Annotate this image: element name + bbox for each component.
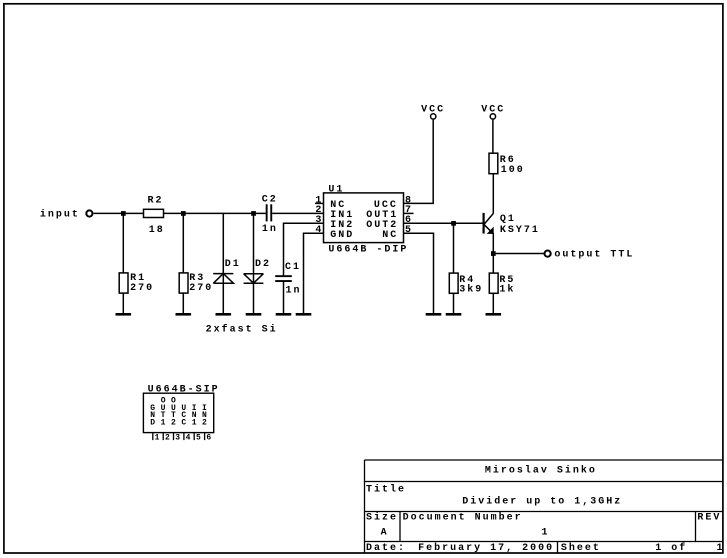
svg-text:Date:: Date: xyxy=(366,543,406,554)
svg-text:U664B-SIP: U664B-SIP xyxy=(148,385,220,396)
SIP pin ticks xyxy=(153,433,205,441)
wire R2 to C2 xyxy=(164,212,266,214)
svg-text:U1: U1 xyxy=(328,185,344,196)
svg-text:1: 1 xyxy=(542,528,550,539)
svg-text:D12C12: D12C12 xyxy=(150,418,212,427)
diode D1 symbol xyxy=(213,273,233,275)
diode D2 symbol xyxy=(244,273,264,275)
junction at D2 xyxy=(251,211,256,216)
svg-text:GND: GND xyxy=(330,230,354,241)
svg-text:2xfast Si: 2xfast Si xyxy=(206,323,278,335)
wire R6 to Q1 collector xyxy=(492,174,494,214)
svg-text:3k9: 3k9 xyxy=(459,284,483,296)
svg-text:18: 18 xyxy=(149,225,165,236)
transistor Q1 emitter stroke xyxy=(484,225,494,234)
wire C2 to U1 pin2 xyxy=(272,212,323,214)
svg-text:output TTL: output TTL xyxy=(554,250,634,261)
svg-text:A: A xyxy=(381,528,389,539)
svg-text:VCC: VCC xyxy=(421,105,445,116)
wire R1 drop xyxy=(122,213,124,273)
wire D2 drop xyxy=(253,213,255,313)
wire U1 pin4 to ground xyxy=(304,233,324,313)
svg-text:Title: Title xyxy=(366,483,406,495)
transistor Q1 base bar xyxy=(483,213,485,234)
junction on input node at R1 xyxy=(121,211,126,216)
resistor R1 body xyxy=(119,273,128,293)
U664B-SIP pinout diagram xyxy=(143,385,219,443)
svg-text:Divider up to 1,3GHz: Divider up to 1,3GHz xyxy=(462,495,622,507)
svg-text:input: input xyxy=(40,208,80,220)
svg-text:123456: 123456 xyxy=(155,434,217,443)
svg-text:Sheet: Sheet xyxy=(561,542,601,554)
svg-text:VCC: VCC xyxy=(481,105,505,116)
svg-text:KSY71: KSY71 xyxy=(500,225,540,236)
wire output xyxy=(493,253,544,255)
capacitor C2 plates xyxy=(266,204,268,221)
wire Q1 emitter down to R5 and ground xyxy=(492,234,494,274)
node input terminal circle xyxy=(86,210,92,216)
resistor R4 body xyxy=(449,273,458,293)
svg-text:5: 5 xyxy=(405,225,413,236)
transistor Q1 emitter arrowhead xyxy=(487,227,494,234)
svg-text:Miroslav Sinko: Miroslav Sinko xyxy=(485,464,597,476)
wire U1 pin8 to VCC xyxy=(404,120,434,204)
svg-text:1: 1 xyxy=(717,543,725,554)
svg-text:1n: 1n xyxy=(286,285,302,296)
svg-text:C2: C2 xyxy=(262,194,278,205)
capacitor C1 plates xyxy=(275,275,292,277)
svg-text:U664B -DIP: U664B -DIP xyxy=(328,245,408,256)
svg-text:D2: D2 xyxy=(255,259,271,270)
ground U1 pin4 xyxy=(296,313,312,316)
transistor Q1 collector stroke xyxy=(484,213,494,224)
resistor R5 body xyxy=(489,273,498,293)
resistor R6 body xyxy=(489,153,498,174)
svg-text:1 of: 1 of xyxy=(655,542,687,554)
svg-text:100: 100 xyxy=(501,165,525,176)
wire U1 pin6 to Q1 base xyxy=(404,222,484,224)
junction at R3 xyxy=(181,211,186,216)
svg-text:D1: D1 xyxy=(225,259,241,270)
svg-text:R2: R2 xyxy=(148,195,164,206)
svg-text:Document Number: Document Number xyxy=(403,511,523,523)
svg-text:Size: Size xyxy=(366,511,398,523)
wire VCC to R6 xyxy=(492,120,494,154)
junction at R4 on base net xyxy=(451,221,456,226)
pin 7 stub U1 xyxy=(404,212,414,214)
ground D2 xyxy=(246,313,262,316)
pin 1 stub U1 xyxy=(315,202,324,204)
svg-text:Q1: Q1 xyxy=(500,214,516,225)
svg-text:4: 4 xyxy=(315,225,323,236)
svg-text:February 17, 2000: February 17, 2000 xyxy=(418,542,554,554)
power VCC terminal left xyxy=(431,114,436,119)
wire input to R2 xyxy=(94,212,144,214)
svg-text:270: 270 xyxy=(189,283,213,294)
ground C1 xyxy=(276,313,292,316)
wire U1 pin5 to ground xyxy=(404,233,434,313)
ground U1 pin5 xyxy=(426,313,442,316)
svg-text:NC: NC xyxy=(382,230,398,241)
op-amp U1 box U664B-DIP xyxy=(324,193,404,243)
SIP package box xyxy=(143,393,213,432)
svg-text:REV: REV xyxy=(697,512,721,523)
wire C1 to ground xyxy=(283,282,285,314)
title block xyxy=(365,460,723,553)
svg-text:C1: C1 xyxy=(285,262,301,273)
junction at output node xyxy=(491,251,496,256)
ground R5 xyxy=(486,313,502,316)
power VCC terminal right xyxy=(490,114,495,119)
svg-text:270: 270 xyxy=(130,283,154,294)
node output terminal circle xyxy=(545,251,551,257)
wire U1 pin3 to C1 xyxy=(284,223,324,275)
ground D1 xyxy=(216,313,232,316)
ground R1 xyxy=(116,313,132,316)
wire R3 drop xyxy=(182,213,184,273)
svg-text:1k: 1k xyxy=(499,284,515,296)
resistor R2 body xyxy=(144,209,164,217)
wire R4 drop xyxy=(453,223,455,273)
wire D1 drop xyxy=(222,213,224,313)
ground R4 xyxy=(446,313,462,316)
ground R3 xyxy=(176,313,192,316)
resistor R3 body xyxy=(179,273,188,293)
svg-text:1n: 1n xyxy=(262,224,278,235)
